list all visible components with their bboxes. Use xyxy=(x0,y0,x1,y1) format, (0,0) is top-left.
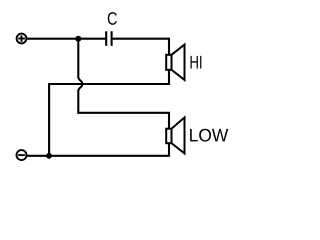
label HI xyxy=(191,56,202,69)
wire: LOW speaker bottom to minus terminal xyxy=(27,143,170,156)
wire: top junction down with hop over crossing, then to LOW speaker top xyxy=(78,39,169,129)
terminal plus xyxy=(17,34,27,44)
label LOW xyxy=(190,129,228,142)
terminal minus xyxy=(17,150,27,160)
wire: capacitor to HI speaker top xyxy=(113,39,170,55)
speaker HI driver rectangle xyxy=(166,55,171,70)
speaker LOW driver rectangle xyxy=(166,129,171,144)
node junction top xyxy=(75,36,81,42)
wire: plus terminal to capacitor xyxy=(26,38,105,40)
node junction bottom xyxy=(46,153,52,159)
wire: HI speaker bottom to left vertical xyxy=(49,70,169,156)
capacitor C plates xyxy=(106,31,111,46)
speaker HI cone xyxy=(172,45,185,80)
label C xyxy=(108,12,117,25)
speaker LOW cone xyxy=(172,117,185,153)
